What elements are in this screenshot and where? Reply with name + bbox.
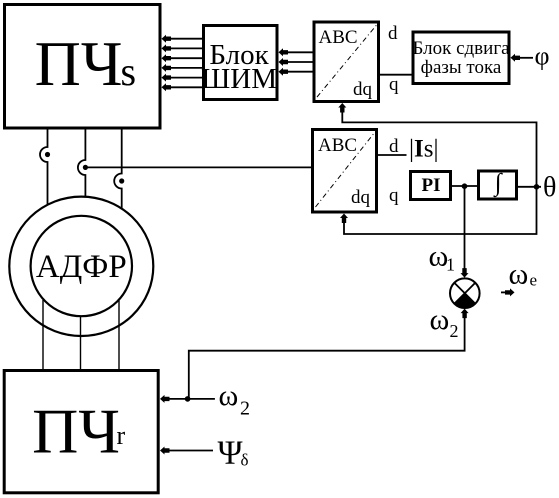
- svg-text:s: s: [121, 49, 137, 94]
- wire PWM gate signal 5 to PCHs: [170, 77, 203, 79]
- svg-text:d: d: [389, 136, 399, 157]
- wire PWM gate signal 1 to PCHs: [170, 38, 203, 40]
- svg-text:ABC: ABC: [319, 27, 358, 48]
- svg-text:r: r: [117, 421, 126, 450]
- wire integrator output to theta node: [517, 186, 541, 188]
- wire rotor phase B: [80, 317, 82, 371]
- svg-text:ШИМ: ШИМ: [201, 63, 277, 95]
- svg-text:1: 1: [446, 255, 455, 275]
- current sensor dot phase C: [119, 178, 124, 183]
- wire current measurement to U2: [85, 166, 312, 168]
- svg-text:e: e: [530, 271, 538, 290]
- wire theta feedback to U1: [342, 110, 536, 187]
- wire d output of U2 to current magnitude: [377, 154, 407, 156]
- wire PWM gate signal 6 to PCHs: [170, 86, 203, 88]
- wire U1 phase reference 2 to PWM: [287, 61, 314, 63]
- wire PI output to integrator: [451, 185, 478, 187]
- wire omega-e output arrow: [501, 291, 506, 293]
- svg-text:φ: φ: [535, 42, 550, 71]
- svg-text:ω: ω: [219, 379, 239, 412]
- svg-text:ω: ω: [509, 258, 529, 291]
- block of current phase shift (Blok sdviga fazy toka): [412, 32, 510, 84]
- wire stator phase B with sensor loop: [78, 130, 86, 198]
- current sensor dot phase A: [45, 152, 50, 157]
- wire psi-delta input to PCHr: [169, 450, 213, 452]
- svg-text:Ψ: Ψ: [218, 434, 243, 471]
- svg-text:ABC: ABC: [318, 135, 357, 156]
- svg-text:q: q: [389, 74, 399, 95]
- wire PWM gate signal 3 to PCHs: [170, 57, 203, 59]
- svg-text:q: q: [389, 185, 399, 206]
- wire theta feedback to U2: [344, 187, 537, 234]
- wire stator phase A with sensor loop: [40, 130, 48, 205]
- converter block PCHr (rotor frequency converter): [4, 371, 158, 493]
- wire q from phase-shift block to U1: [379, 74, 414, 76]
- integrator block: [479, 170, 517, 200]
- svg-text:d: d: [388, 23, 398, 44]
- svg-text:|Is|: |Is|: [409, 136, 438, 163]
- wire omega2 from PCHr node to summator: [189, 317, 465, 399]
- svg-text:Блок сдвига: Блок сдвига: [412, 38, 510, 59]
- wire PWM gate signal 2 to PCHs: [170, 47, 203, 49]
- current sensor dot phase B: [83, 165, 88, 170]
- svg-text:PI: PI: [422, 175, 441, 196]
- svg-text:dq: dq: [351, 187, 371, 208]
- svg-text:ПЧ: ПЧ: [32, 396, 120, 467]
- wire rotor phase A: [42, 300, 44, 370]
- coordinate converter U1 ABC/dq (top): [314, 22, 379, 102]
- wire rotor phase C: [118, 301, 120, 371]
- svg-text:АДФР: АДФР: [36, 249, 127, 285]
- wire omega1 to summator: [464, 186, 466, 269]
- converter block PCHs (stator frequency converter): [5, 5, 161, 129]
- coordinate converter U2 ABC/dq (middle): [313, 130, 377, 213]
- wire U1 phase reference 1 to PWM: [287, 51, 314, 53]
- svg-text:фазы тока: фазы тока: [421, 57, 502, 78]
- svg-text:ω: ω: [430, 303, 450, 336]
- svg-text:2: 2: [240, 398, 250, 420]
- svg-text:∫: ∫: [493, 170, 503, 198]
- node omega1 junction: [462, 183, 468, 189]
- wire PWM gate signal 4 to PCHs: [170, 67, 203, 69]
- svg-text:ПЧ: ПЧ: [35, 28, 123, 99]
- node theta junction: [534, 184, 540, 190]
- svg-text:θ: θ: [543, 172, 556, 203]
- wire U1 phase reference 3 to PWM: [287, 71, 314, 73]
- wire omega2 input to PCHr: [169, 398, 215, 400]
- block PWM (Blok ShIM): [201, 26, 277, 100]
- motor ADFR (induction machine with phase rotor): [9, 197, 153, 336]
- regulator PI: [411, 172, 451, 200]
- wire stator phase C with sensor loop: [114, 130, 121, 210]
- svg-text:dq: dq: [353, 79, 373, 100]
- svg-text:δ: δ: [241, 451, 249, 470]
- node omega2 junction: [185, 396, 191, 402]
- svg-text:2: 2: [450, 321, 459, 341]
- wire phi input to phase-shift block: [519, 57, 533, 59]
- summator (speed adder): [450, 278, 480, 308]
